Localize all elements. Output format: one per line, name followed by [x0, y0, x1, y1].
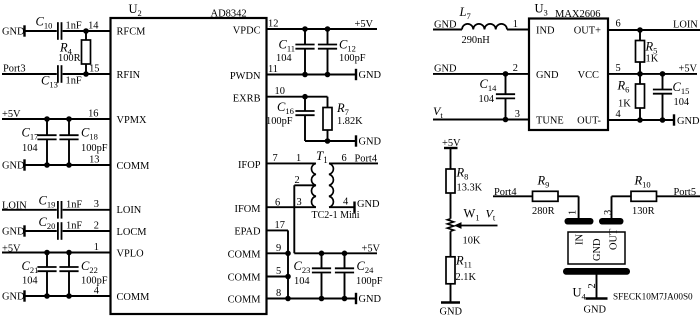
svg-text:IFOM: IFOM — [235, 204, 261, 215]
junction R7 bottom — [325, 138, 331, 144]
svg-text:100pF: 100pF — [266, 116, 293, 127]
svg-text:GND: GND — [677, 116, 700, 127]
junction C11 bottom — [302, 72, 308, 78]
ground tick (PWDN row) — [355, 69, 357, 80]
junction R6 bottom — [637, 117, 643, 123]
svg-text:104: 104 — [22, 143, 38, 154]
svg-text:OUT: OUT — [609, 228, 620, 250]
capacitor C24 — [344, 253, 346, 268]
svg-text:2.1K: 2.1K — [456, 272, 477, 283]
svg-text:3: 3 — [94, 199, 99, 210]
oscillator U3 MAX2606 body — [529, 19, 608, 131]
wire U3 pin 4 OUT- to GND — [608, 119, 674, 121]
svg-text:280R: 280R — [532, 206, 555, 217]
ground bar (U4) — [586, 297, 608, 300]
svg-text:GND: GND — [2, 27, 25, 38]
svg-text:6: 6 — [616, 19, 621, 30]
wire U3 pin 6 to LOIN — [608, 29, 700, 31]
svg-text:MAX2606: MAX2606 — [555, 9, 601, 20]
wire +5V to pin 16 — [2, 118, 111, 120]
ground tick (COMM8 row) — [355, 293, 357, 304]
svg-text:15: 15 — [89, 64, 99, 75]
svg-text:TUNE: TUNE — [536, 116, 564, 127]
junction C21 bottom — [44, 293, 50, 299]
capacitor C19 — [58, 201, 62, 219]
ground tick (COMM4 row) — [23, 290, 25, 301]
wire L7 to U3 pin 1 — [507, 29, 529, 31]
ceramic filter U4 input pad — [565, 218, 594, 225]
svg-text:16: 16 — [88, 109, 98, 120]
svg-text:VPDC: VPDC — [233, 26, 261, 37]
junction R6 top — [637, 71, 643, 77]
junction C17 top — [44, 116, 50, 122]
junction C18 top — [66, 116, 72, 122]
junction C16 top — [302, 94, 308, 100]
resistor R7 — [327, 97, 329, 108]
wire C20 to pin 2 — [63, 230, 111, 232]
svg-text:+5V: +5V — [362, 244, 381, 255]
wire pin 10 EXRB — [267, 96, 328, 98]
wire GND to L7 — [433, 29, 462, 31]
inductor L7 — [462, 24, 507, 30]
svg-text:EPAD: EPAD — [234, 227, 261, 238]
svg-text:4: 4 — [94, 286, 100, 297]
wire pin 2 down to +5V rail — [293, 185, 295, 253]
svg-text:1.82K: 1.82K — [337, 116, 363, 127]
op-amp U2 AD8342 mixer IC body — [111, 18, 267, 314]
svg-text:SFECK10M7JA00S0: SFECK10M7JA00S0 — [613, 292, 693, 302]
junction R5 top — [637, 27, 643, 33]
wire W1 to R11 — [450, 231, 452, 257]
svg-text:100pF: 100pF — [339, 53, 366, 64]
svg-text:1K: 1K — [618, 99, 631, 110]
svg-text:COMM: COMM — [117, 161, 150, 172]
svg-text:RFCM: RFCM — [117, 27, 146, 38]
wire C10 to pin 14 — [63, 30, 111, 32]
capacitor C18 — [68, 119, 70, 135]
svg-text:COMM: COMM — [117, 292, 150, 303]
svg-text:13.3K: 13.3K — [457, 183, 483, 194]
capacitor C16 — [304, 97, 306, 111]
svg-text:5: 5 — [616, 63, 621, 74]
resistor R9 — [533, 191, 559, 201]
wire T1 pin 4 to GND — [329, 206, 355, 208]
svg-text:+5V: +5V — [679, 63, 698, 74]
wire C16/R7 bottom to GND — [305, 140, 356, 142]
wire Vt to U3 pin 3 TUNE — [433, 119, 529, 121]
svg-text:290nH: 290nH — [462, 35, 491, 46]
svg-text:6: 6 — [342, 153, 347, 164]
wire Port4 to R9 — [493, 195, 533, 197]
wire R11 to ground — [450, 284, 452, 303]
junction C23 bottom — [319, 296, 325, 302]
node junction at pin 14 — [83, 28, 89, 34]
svg-text:100pF: 100pF — [81, 143, 108, 154]
svg-text:130R: 130R — [632, 206, 655, 217]
svg-text:10K: 10K — [463, 236, 481, 247]
wire pin 9 COMM — [267, 252, 289, 254]
junction C14 top — [503, 71, 509, 77]
transformer T1 secondary winding — [329, 163, 333, 207]
junction C24 bottom — [342, 296, 348, 302]
svg-text:12: 12 — [268, 19, 278, 30]
ground tick (EXRB row) — [355, 135, 357, 146]
junction C18 bottom — [66, 162, 72, 168]
svg-text:4: 4 — [343, 197, 349, 208]
svg-text:4: 4 — [616, 109, 622, 120]
junction C22 bottom — [66, 293, 72, 299]
wire pin 5 COMM — [267, 276, 289, 278]
svg-text:100pF: 100pF — [356, 276, 383, 287]
svg-text:VPMX: VPMX — [117, 115, 148, 126]
wire C13 to pin 15 — [63, 73, 111, 75]
wire C19 to pin 3 — [63, 209, 111, 211]
resistor R10 — [631, 191, 657, 201]
wire U3 pin 5 VCC to +5V — [608, 73, 697, 75]
junction C12 top — [325, 26, 331, 32]
svg-text:GND: GND — [2, 227, 25, 238]
junction C22 top — [66, 250, 72, 256]
ceramic filter U4 output pad — [599, 218, 624, 225]
junction C11 top — [302, 26, 308, 32]
ground bar (bias chain) — [441, 301, 460, 304]
wire U4 pin 3 to R10 — [611, 196, 613, 218]
wire pin 12 to +5V — [267, 28, 378, 30]
wire R10 to Port5 — [657, 195, 700, 197]
svg-text:GND: GND — [434, 64, 457, 75]
capacitor C21 — [46, 253, 48, 268]
junction C17 bottom — [44, 162, 50, 168]
svg-text:IFOP: IFOP — [238, 160, 261, 171]
svg-text:GND: GND — [2, 161, 25, 172]
svg-text:IN: IN — [575, 234, 586, 245]
junction pin 8 bus — [285, 296, 291, 302]
svg-text:9: 9 — [276, 243, 281, 254]
capacitor C20 — [58, 222, 62, 240]
resistor R6 — [639, 74, 641, 84]
resistor R11 — [446, 257, 455, 284]
potentiometer W1 — [447, 219, 453, 232]
svg-text:1: 1 — [513, 19, 518, 30]
transformer T1 primary winding — [311, 163, 315, 207]
junction C23 top — [319, 251, 325, 257]
wire Port3 to C13 — [2, 73, 57, 75]
wire pin 6 IFOM to T1 pin 3 — [267, 206, 316, 208]
wire T1 pin 6 to Port4 — [329, 162, 378, 164]
svg-text:VCC: VCC — [578, 70, 599, 81]
svg-text:GND: GND — [536, 70, 559, 81]
svg-text:7: 7 — [273, 153, 278, 164]
capacitor C15 — [662, 74, 664, 90]
svg-text:1nF: 1nF — [66, 199, 82, 210]
svg-text:13: 13 — [89, 155, 99, 166]
svg-text:COMM: COMM — [228, 295, 261, 306]
junction pin 5 bus — [285, 274, 291, 280]
svg-text:GND: GND — [592, 238, 603, 261]
ground tick (COMM13 row) — [23, 159, 25, 170]
wire pin 17 EPAD to bus — [267, 229, 289, 231]
svg-text:OUT-: OUT- — [577, 116, 601, 127]
svg-text:14: 14 — [88, 21, 99, 32]
svg-text:GND: GND — [584, 305, 607, 316]
svg-text:2: 2 — [513, 63, 518, 74]
svg-text:11: 11 — [268, 64, 278, 75]
svg-text:8: 8 — [276, 288, 281, 299]
ceramic filter U4 body — [568, 232, 625, 264]
svg-text:1nF: 1nF — [66, 221, 82, 232]
svg-text:104: 104 — [276, 53, 292, 64]
capacitor C10 — [58, 22, 62, 40]
svg-text:COMM: COMM — [228, 249, 261, 260]
svg-text:3: 3 — [515, 109, 520, 120]
wire +5V to pin 1 — [2, 252, 111, 254]
junction C21 top — [44, 250, 50, 256]
capacitor C17 — [46, 119, 48, 135]
svg-text:104: 104 — [479, 94, 495, 105]
wire pin 11 to GND — [267, 74, 357, 76]
wire pin 7 IFOP to T1 pin 1 — [267, 162, 316, 164]
svg-text:+5V: +5V — [355, 19, 374, 30]
node junction at pin 15 — [83, 71, 89, 77]
svg-text:LOIN: LOIN — [673, 20, 698, 31]
svg-text:GND: GND — [359, 137, 382, 148]
svg-text:1: 1 — [296, 153, 301, 164]
svg-text:2: 2 — [94, 221, 99, 232]
wire pin 8 COMM to GND — [267, 298, 357, 300]
wire GND to pin 4 — [25, 295, 111, 297]
wire T1 pin2 rail to +5V — [294, 252, 377, 254]
junction C14 bottom — [503, 117, 509, 123]
svg-text:17: 17 — [275, 220, 285, 231]
svg-text:104: 104 — [22, 276, 38, 287]
svg-text:1nF: 1nF — [66, 21, 82, 32]
capacitor C12 — [327, 29, 329, 45]
svg-text:Port3: Port3 — [3, 64, 26, 75]
svg-text:GND: GND — [440, 307, 463, 318]
W1 wiper arrow — [459, 225, 498, 227]
svg-text:COMM: COMM — [228, 273, 261, 284]
svg-text:TC2-1 Mini: TC2-1 Mini — [312, 210, 360, 221]
svg-text:LOCM: LOCM — [117, 227, 147, 238]
junction C12 bottom — [325, 72, 331, 78]
ground tick (RFCM row) — [23, 25, 25, 36]
svg-text:104: 104 — [294, 276, 310, 287]
svg-text:VPLO: VPLO — [117, 249, 145, 260]
wire GND to pin 13 — [25, 164, 111, 166]
capacitor C11 — [304, 29, 306, 45]
svg-text:AD8342: AD8342 — [211, 9, 247, 20]
svg-text:2: 2 — [295, 175, 300, 186]
capacitor C22 — [68, 253, 70, 268]
wire GND to C10 — [25, 30, 57, 32]
junction pin 9 bus — [285, 251, 291, 257]
wire R8 to W1 — [450, 193, 452, 219]
ground tick (T1 pin 4) — [353, 202, 355, 213]
wire U4 pin 2 to ground — [596, 275, 598, 299]
svg-text:100pF: 100pF — [81, 276, 108, 287]
resistor R5 — [639, 30, 641, 41]
ground tick (LOCM row) — [23, 225, 25, 236]
junction C24 top — [342, 251, 348, 257]
svg-text:104: 104 — [674, 97, 690, 108]
resistor R8 — [446, 169, 455, 193]
svg-text:GND: GND — [357, 199, 380, 210]
svg-text:3: 3 — [297, 197, 302, 208]
svg-text:100R: 100R — [58, 53, 81, 64]
wire R9 to U4 pin 1 — [558, 195, 579, 197]
svg-text:10: 10 — [275, 86, 285, 97]
svg-text:Port5: Port5 — [674, 187, 697, 198]
junction C15 bottom — [660, 117, 666, 123]
wire GND to C20 — [25, 230, 57, 232]
wire LOIN to C19 — [2, 209, 57, 211]
svg-text:RFIN: RFIN — [117, 70, 141, 81]
svg-text:1nF: 1nF — [66, 76, 82, 87]
wire +5V to R8 — [450, 148, 452, 169]
ceramic filter U4 ground pad — [563, 268, 630, 275]
resistor R4 — [85, 31, 87, 40]
svg-text:1: 1 — [568, 210, 579, 215]
svg-text:GND: GND — [2, 292, 25, 303]
capacitor C14 — [505, 74, 507, 94]
capacitor C13 — [58, 65, 62, 83]
capacitor C23 — [321, 253, 323, 268]
svg-text:EXRB: EXRB — [233, 94, 261, 105]
svg-text:Port4: Port4 — [355, 154, 378, 165]
svg-text:GND: GND — [359, 70, 382, 81]
svg-text:1K: 1K — [646, 54, 659, 65]
svg-text:1: 1 — [94, 242, 99, 253]
svg-text:LOIN: LOIN — [117, 205, 142, 216]
ground tick (OUT- row) — [673, 114, 675, 125]
wire T1 center tap pin 2 — [294, 184, 316, 186]
svg-text:GND: GND — [359, 294, 382, 305]
svg-text:IND: IND — [536, 26, 555, 37]
svg-text:5: 5 — [276, 266, 281, 277]
junction C15 top — [660, 71, 666, 77]
svg-text:OUT+: OUT+ — [574, 26, 601, 37]
wire GND to U3 pin 2 — [433, 73, 529, 75]
svg-text:PWDN: PWDN — [230, 71, 261, 82]
